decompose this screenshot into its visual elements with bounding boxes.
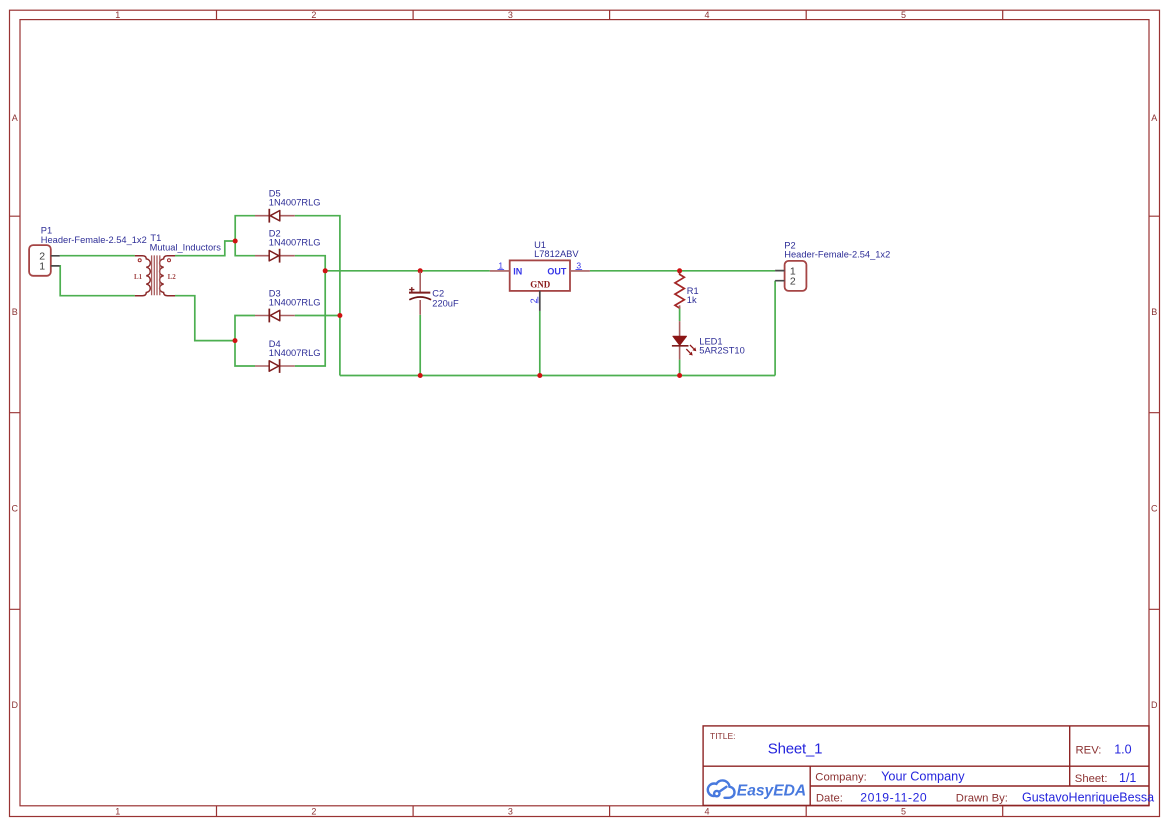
svg-text:GND: GND bbox=[530, 279, 551, 289]
svg-text:TITLE:: TITLE: bbox=[710, 731, 736, 741]
wire D2 cathode down to D4 bbox=[295, 256, 325, 366]
svg-text:1N4007RLG: 1N4007RLG bbox=[269, 238, 321, 248]
svg-text:1.0: 1.0 bbox=[1114, 742, 1131, 756]
wire D5/D2 anodes vertical bbox=[235, 216, 255, 256]
svg-text:C: C bbox=[11, 503, 18, 513]
label LED1 bbox=[699, 336, 744, 355]
wire D3 right to ground vertical bbox=[295, 315, 340, 317]
svg-text:T1: T1 bbox=[150, 233, 161, 243]
svg-text:L2: L2 bbox=[168, 273, 177, 281]
svg-text:L7812ABV: L7812ABV bbox=[534, 249, 579, 259]
wire P2 pin2 down to ground rail bbox=[774, 281, 776, 376]
svg-text:OUT: OUT bbox=[547, 267, 567, 277]
svg-text:GustavoHenriqueBessa: GustavoHenriqueBessa bbox=[1022, 791, 1154, 805]
junction ground D3 bbox=[337, 313, 342, 318]
svg-text:IN: IN bbox=[513, 267, 522, 277]
junction LED1 bottom bbox=[677, 373, 682, 378]
winding L2 bbox=[160, 256, 175, 296]
svg-text:220uF: 220uF bbox=[432, 299, 459, 309]
connector P1 bbox=[29, 245, 60, 276]
wire U1 GND to ground rail bbox=[539, 311, 541, 376]
wire C2 bottom to ground rail bbox=[419, 315, 421, 376]
title texts bbox=[710, 731, 1154, 805]
svg-text:Sheet:: Sheet: bbox=[1075, 773, 1108, 785]
svg-text:3: 3 bbox=[576, 260, 581, 270]
T1 core bbox=[152, 255, 160, 295]
junction U1 GND rail bbox=[537, 373, 542, 378]
wire main +rail to U1 IN bbox=[325, 270, 490, 272]
svg-text:2: 2 bbox=[529, 298, 539, 303]
regulator U1 bbox=[490, 260, 590, 311]
svg-text:1k: 1k bbox=[687, 295, 697, 305]
label D2 bbox=[269, 229, 321, 248]
junction R1 top bbox=[677, 268, 682, 273]
svg-text:Date:: Date: bbox=[816, 793, 843, 805]
wire T1 L2 top to node A bbox=[175, 241, 235, 256]
resistor R1 bbox=[675, 271, 684, 309]
svg-text:1: 1 bbox=[498, 260, 503, 270]
svg-text:B: B bbox=[12, 307, 18, 317]
capacitor C2 bbox=[409, 272, 431, 315]
svg-text:3: 3 bbox=[508, 10, 513, 20]
svg-text:1N4007RLG: 1N4007RLG bbox=[269, 348, 321, 358]
svg-text:1: 1 bbox=[115, 807, 120, 817]
wire P1 pin1 to T1 L1 bottom bbox=[60, 266, 135, 296]
svg-text:5AR2ST10: 5AR2ST10 bbox=[699, 346, 744, 356]
svg-text:Your Company: Your Company bbox=[881, 770, 965, 784]
junction C2 bottom bbox=[418, 373, 423, 378]
node B junction bbox=[233, 338, 238, 343]
wire U1 OUT rail to P2 bbox=[590, 270, 775, 272]
svg-text:A: A bbox=[12, 113, 18, 123]
SCHEMATIC WIRES bbox=[60, 216, 775, 376]
svg-text:2: 2 bbox=[311, 807, 316, 817]
svg-text:Mutual_Inductors: Mutual_Inductors bbox=[150, 243, 222, 253]
svg-text:L1: L1 bbox=[134, 273, 143, 281]
svg-text:1: 1 bbox=[39, 261, 45, 273]
svg-text:1N4007RLG: 1N4007RLG bbox=[269, 198, 321, 208]
T1 phase dots bbox=[138, 259, 141, 262]
label R1 bbox=[687, 286, 699, 305]
svg-text:1N4007RLG: 1N4007RLG bbox=[269, 298, 321, 308]
wire R1 to LED1 bbox=[679, 308, 681, 321]
EasyEDA logo bbox=[708, 780, 735, 797]
svg-text:Drawn By:: Drawn By: bbox=[956, 793, 1008, 805]
svg-text:3: 3 bbox=[508, 807, 513, 817]
wire P1 pin2 to T1 L1 top bbox=[60, 255, 135, 257]
node A junction bbox=[233, 239, 238, 244]
svg-text:B: B bbox=[1151, 307, 1157, 317]
svg-text:D: D bbox=[1151, 700, 1158, 710]
svg-text:EasyEDA: EasyEDA bbox=[737, 783, 806, 800]
junction +rail D2/D4 bbox=[323, 268, 328, 273]
svg-text:A: A bbox=[1151, 113, 1157, 123]
diode D3 bbox=[255, 309, 295, 323]
label P1 bbox=[41, 226, 147, 245]
label C2 bbox=[432, 288, 459, 308]
svg-text:5: 5 bbox=[901, 10, 906, 20]
label D3 bbox=[269, 288, 321, 307]
svg-text:REV:: REV: bbox=[1076, 744, 1102, 756]
svg-text:Header-Female-2.54_1x2: Header-Female-2.54_1x2 bbox=[784, 250, 890, 260]
label P2 bbox=[784, 240, 890, 259]
diode D4 bbox=[255, 359, 295, 373]
svg-text:1: 1 bbox=[115, 10, 120, 20]
svg-text:Header-Female-2.54_1x2: Header-Female-2.54_1x2 bbox=[41, 235, 147, 245]
label D4 bbox=[269, 339, 321, 358]
svg-text:1/1: 1/1 bbox=[1119, 771, 1136, 785]
svg-text:2019-11-20: 2019-11-20 bbox=[860, 791, 927, 805]
svg-text:C: C bbox=[1151, 503, 1158, 513]
LED LED1 bbox=[672, 321, 696, 360]
wire D3/D4 left vertical bbox=[235, 316, 255, 367]
wire LED1 to ground rail bbox=[679, 360, 681, 376]
junction dots bbox=[233, 239, 683, 379]
svg-text:4: 4 bbox=[704, 10, 709, 20]
svg-text:Company:: Company: bbox=[815, 771, 867, 783]
diode D5 bbox=[255, 209, 295, 223]
transformer T1 bbox=[134, 255, 176, 295]
wire T1 L2 bottom to node B bbox=[175, 296, 235, 341]
svg-text:Sheet_1: Sheet_1 bbox=[768, 740, 822, 757]
label D5 bbox=[269, 189, 321, 208]
svg-text:4: 4 bbox=[704, 807, 709, 817]
LED light arrows bbox=[686, 345, 696, 356]
svg-text:D: D bbox=[11, 700, 18, 710]
diode D2 bbox=[255, 249, 295, 263]
svg-text:5: 5 bbox=[901, 807, 906, 817]
svg-text:2: 2 bbox=[311, 10, 316, 20]
junction C2 top bbox=[418, 268, 423, 273]
svg-text:C2: C2 bbox=[432, 288, 444, 298]
wire D5 cathode to ground rail bbox=[295, 216, 340, 376]
connector P2 bbox=[775, 261, 806, 291]
svg-text:2: 2 bbox=[790, 276, 796, 288]
label U1 bbox=[534, 240, 579, 259]
winding L1 bbox=[135, 256, 150, 296]
label T1 bbox=[150, 233, 222, 253]
title block bbox=[703, 726, 1149, 806]
wire ground rail bottom bbox=[340, 375, 775, 377]
